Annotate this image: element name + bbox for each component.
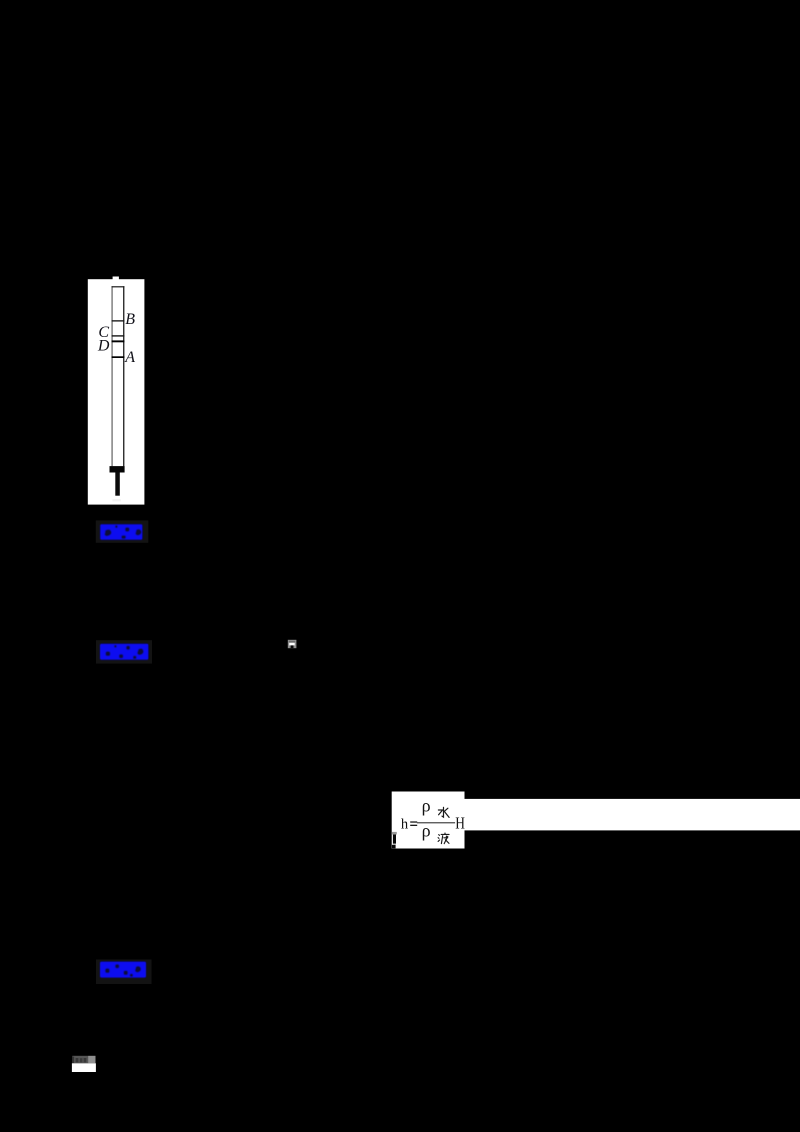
svg-text:H: H [455, 814, 465, 833]
figure top nub [113, 277, 119, 280]
bottom-left fragment: gray band [72, 1056, 88, 1064]
answer tag 3 dark halo box [96, 960, 152, 985]
formula left-bottom fragment (exclamation-like) [392, 832, 397, 848]
answer tag 1 dark halo box [96, 520, 149, 542]
svg-text:A: A [124, 349, 135, 366]
answer tag 3 blue text 【点睛】 [100, 962, 146, 978]
formula: fraction bar [417, 822, 455, 823]
faint smudge under stem [112, 499, 120, 501]
tube left wall [112, 286, 113, 466]
svg-text:ρ: ρ [422, 821, 431, 841]
thermometer stem [115, 473, 120, 496]
answer tag 1 blue text 【答案】 [100, 524, 142, 540]
mark D line [112, 340, 125, 342]
formula white image block [392, 792, 465, 849]
answer tag 2 blue text 【解析】 [100, 644, 148, 660]
svg-text:B: B [125, 311, 135, 328]
svg-text:h: h [401, 817, 409, 833]
svg-text:ρ: ρ [422, 796, 431, 816]
bottom-left fragment: lighter right part [88, 1056, 95, 1064]
white band to page right edge [464, 799, 800, 831]
mark B line [112, 320, 125, 321]
tube top cap line [112, 286, 125, 287]
bottom-left fragment: white block [72, 1063, 96, 1072]
figure white image block [88, 279, 145, 504]
mark A line [112, 356, 125, 358]
formula: equals sign [410, 821, 417, 822]
thermometer bulb cap [110, 466, 125, 472]
tiny inline image fragment (gray box) [288, 640, 297, 648]
formula: denominator ye (liquid) [438, 833, 449, 844]
formula: numerator shui (water) [438, 807, 449, 817]
tube right wall [123, 286, 124, 466]
svg-text:D: D [97, 338, 110, 355]
answer tag 2 dark halo box [96, 640, 152, 663]
mark C line [112, 335, 125, 336]
bottom-left fragment: band darker marks [72, 1057, 74, 1064]
